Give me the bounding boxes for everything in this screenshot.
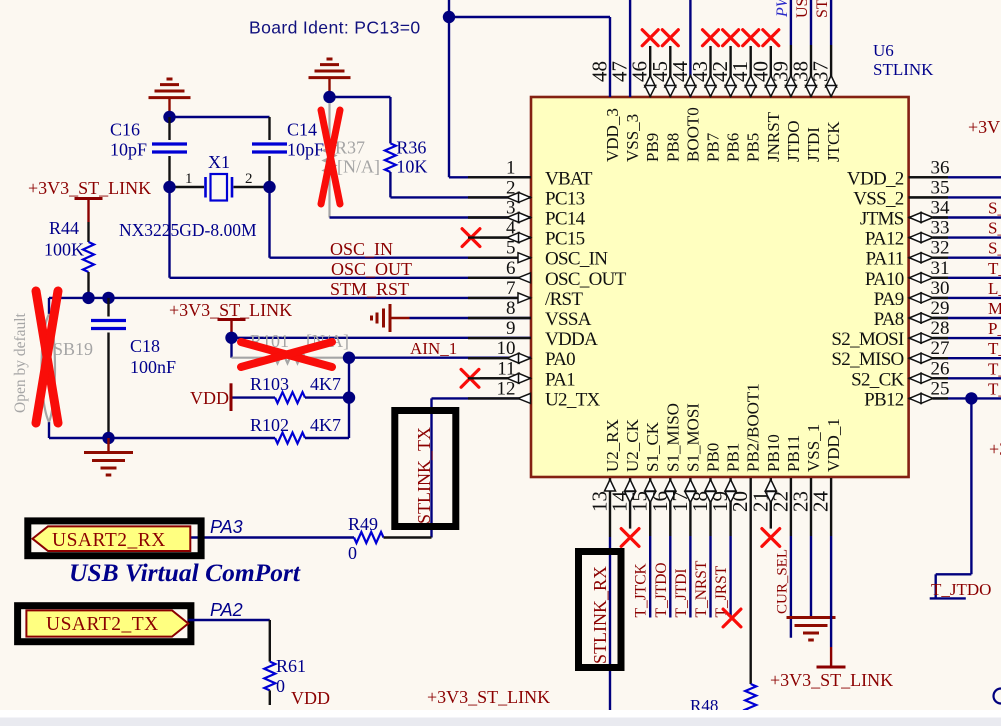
pin 25 PB12 [864,378,949,410]
svg-text:1: 1 [185,171,193,187]
annotation box STLINK RX [579,552,622,668]
svg-text:C14: C14 [287,120,317,140]
annotation box STLINK TX [395,411,456,527]
pin 28 S2_MOSI [831,318,949,350]
label STM_RST [330,279,409,299]
svg-text:S1_MOSI: S1_MOSI [683,403,702,472]
wire pin 31 [933,277,1001,279]
svg-text:VDD_3: VDD_3 [603,108,622,162]
svg-text:0: 0 [276,676,285,696]
label R103 [250,374,289,394]
svg-text:10K: 10K [396,157,427,177]
wire pin 39 JTDO to top [790,0,792,97]
label PA2 [210,600,243,620]
no-connect X pin 40 [763,30,779,46]
svg-text:4K7: 4K7 [310,415,341,435]
power +3V3 (top right, clipped) [968,117,1001,137]
pin 38 JTDI [789,61,824,162]
svg-text:PA2: PA2 [210,600,243,620]
wire pin 25 [933,397,1001,399]
svg-text:28: 28 [931,318,950,339]
label T_JTCK (rotated) [633,562,650,617]
svg-text:OSC_IN: OSC_IN [545,249,608,270]
svg-text:T_: T_ [988,339,1001,358]
wire stub pin 40 [770,46,772,97]
label R101 (gray) [250,331,289,351]
svg-text:24: 24 [809,491,833,513]
svg-text:PB12: PB12 [864,389,904,410]
resistor R44 [83,222,94,298]
wire pin 20 to R48 [750,478,752,684]
svg-text:JTDO: JTDO [784,120,803,162]
node VDDA junction [225,332,237,344]
svg-text:STLINK_RX: STLINK_RX [590,566,610,664]
svg-text:R61: R61 [276,656,306,676]
svg-text:PA0: PA0 [545,349,575,370]
pin 35 VSS_2 [853,177,949,209]
svg-text:PA12: PA12 [865,229,904,250]
svg-text:PA11: PA11 [866,249,904,270]
wire R37 to pin3 PC14 [330,216,532,218]
ground below C18 [84,438,133,475]
power +3V3 (right, clipped) [989,439,1001,459]
wire pin 38 JTDI to top [810,0,812,97]
svg-text:R36: R36 [396,138,426,158]
svg-text:PA8: PA8 [874,309,904,330]
svg-text:T_JTDI: T_JTDI [673,568,690,617]
pin 21 PB10 [748,434,783,512]
svg-text:VBAT: VBAT [545,168,593,189]
label T_NRST (rotated) [693,560,710,617]
svg-text:BOOT0: BOOT0 [683,107,702,162]
svg-text:35: 35 [931,177,950,198]
svg-text:S2_MISO: S2_MISO [831,349,903,370]
node X1 pin2 [263,181,275,193]
resistor R102 [275,433,349,444]
wire pin 44 BOOT0 to top [689,0,691,97]
solder bridge SB19 (gray, open) [42,298,56,438]
label net S... (clipped) [988,219,1001,238]
svg-text:USART2_RX: USART2_RX [52,530,166,551]
no-connect X pin 41 [743,30,759,46]
svg-text:P_: P_ [988,319,1001,338]
wire pin 29 [933,317,1001,319]
label CUR_SEL (rotated) [774,549,790,614]
svg-text:M_: M_ [988,299,1001,318]
svg-text:VSS_2: VSS_2 [853,188,904,209]
resistor R48 [745,684,756,712]
no-connect X pin 46 [642,30,658,46]
label net S... (clipped) [988,199,1001,218]
svg-text:S_: S_ [988,199,1001,218]
svg-text:S2_MOSI: S2_MOSI [831,329,904,350]
svg-text:S1_MISO: S1_MISO [663,403,682,472]
node PB12 junction [965,392,977,404]
svg-text:STLINK_TX: STLINK_TX [414,427,434,524]
svg-text:S2_CK: S2_CK [851,369,904,390]
svg-text:PA9: PA9 [874,289,904,310]
svg-text:30: 30 [931,278,950,299]
svg-text:PB11: PB11 [784,435,803,472]
wire gnd node to C14 top [170,117,270,140]
label T_JTDO [931,580,991,599]
pin 29 PA8 [874,298,950,330]
svg-text:PC15: PC15 [545,229,585,250]
value STLINK [873,60,934,79]
svg-text:R103: R103 [250,374,289,394]
port flag USART2_RX [33,526,191,551]
svg-text:8: 8 [506,298,516,319]
label STLINK_RX (rotated) [590,566,610,664]
svg-text:Open by default: Open by default [12,312,29,413]
pin 7 /RST [468,278,583,310]
label T_JRST (rotated) [713,565,730,617]
wire AIN_1 pin 10 [349,357,531,359]
svg-text:VDD_1: VDD_1 [824,418,843,472]
svg-text:U2_TX: U2_TX [545,389,601,410]
svg-text:CUR_SEL: CUR_SEL [774,549,790,614]
node C18 top [102,292,114,304]
svg-text:29: 29 [931,298,950,319]
svg-text:36: 36 [931,157,950,178]
pin 1 VBAT [468,157,593,189]
value 0 (R49) [348,543,357,563]
node X1 pin1 [163,181,175,193]
wire pin 23 VSS_1 [810,478,812,618]
svg-text:OSC_OUT: OSC_OUT [331,259,412,279]
label SB19 (gray) [53,339,93,359]
pin 33 PA12 [865,218,950,250]
svg-text:+3V3_ST_LINK: +3V3_ST_LINK [770,670,893,690]
node R103 right [343,391,355,403]
pin 32 PA11 [866,238,950,270]
pin 3 PC14 [468,198,586,230]
wire pin 27 [933,357,1001,359]
wire R36 to pin2 PC13 [390,172,531,197]
svg-text:S_: S_ [988,219,1001,238]
bottom margin band [0,710,1001,726]
wire OSC_OUT [170,187,532,278]
connector arc (bottom right, clipped) [994,689,1001,704]
wire stub pin 46 [649,46,651,97]
svg-text:USB: USB [794,0,811,18]
label AIN_1 [410,339,457,358]
svg-text:10pF: 10pF [110,140,147,160]
wire OSC_IN [270,187,532,258]
svg-text:C18: C18 [130,336,160,356]
svg-text:T_JTCK: T_JTCK [633,562,650,617]
wire U2_TX pin 12 [432,398,532,537]
wire pin 22 CUR_SEL [790,478,792,638]
title USB Virtual ComPort [69,558,301,587]
value 100K [44,240,84,260]
svg-text:37: 37 [809,61,833,82]
pin 45 PB8 [648,61,683,162]
not-fitted X over R101 [241,342,332,367]
pin 11 PA1 [468,358,575,390]
wire pin 16 [669,478,671,618]
ground VSS_1 [787,618,836,641]
label R49 [348,514,378,534]
label VDD (R61) [291,688,330,708]
capacitor C14 [252,144,287,187]
capacitor C16 [152,117,187,187]
crystal X1 [170,174,270,201]
svg-text:JTDI: JTDI [804,127,823,162]
pin 14 U2_CK [608,418,643,512]
value [N/A] (R101) [306,331,349,351]
wire pin 19 [729,478,731,618]
pin 26 S2_CK [851,358,949,390]
label net T... (clipped) [988,359,1001,378]
svg-text:R102: R102 [250,415,289,435]
svg-text:VSS_3: VSS_3 [623,114,642,162]
svg-text:11: 11 [497,358,515,379]
value 100nF [130,357,176,377]
resistor R61 [264,662,275,705]
capacitor C18 [91,298,126,438]
wire stub pin 21 [770,478,772,529]
pin 46 PB9 [628,61,663,162]
power VDD (R103) [190,383,231,411]
svg-text:7: 7 [506,278,516,299]
svg-text:5: 5 [506,238,516,259]
value 10K [396,157,427,177]
not-fitted X over R37 [321,110,340,204]
label R44 [49,218,79,238]
wire VSSA pin 8 [410,317,532,319]
no-connect X pin 11 [461,369,479,387]
pin 42 PB6 [708,61,743,162]
svg-text:STM: STM [814,0,831,18]
svg-text:PB8: PB8 [663,133,682,162]
svg-text:U2_CK: U2_CK [623,418,642,472]
svg-text:3: 3 [506,198,516,219]
svg-text:100nF: 100nF [130,357,176,377]
annotation box USART2_TX [18,606,191,642]
svg-text:S1_CK: S1_CK [643,421,662,472]
wire pin 47 VSS_3 to top [629,0,631,97]
label R61 [276,656,306,676]
pin 27 S2_MISO [831,338,949,370]
svg-text:9: 9 [506,318,516,339]
svg-text:PWR: PWR [774,0,791,18]
label R48 [690,696,718,715]
value 4K7 (R102) [310,415,341,435]
svg-text:VDD: VDD [190,388,229,408]
svg-text:[N/A]: [N/A] [337,157,380,177]
ground top (R37/C14 node) [309,59,351,92]
label PA3 [210,517,243,537]
wire stub pin 41 [750,46,752,97]
svg-text:PB9: PB9 [643,133,662,162]
svg-text:JTCK: JTCK [824,121,843,162]
svg-text:PC13: PC13 [545,188,585,209]
no-connect X pin 21 [762,529,780,547]
svg-text:PA10: PA10 [865,269,904,290]
resistor R49 [354,532,432,543]
svg-text:/RST: /RST [545,289,583,310]
annotation box USART2_RX [28,521,201,556]
svg-text:+3V3: +3V3 [968,117,1001,137]
svg-text:PB0: PB0 [704,443,723,472]
node board ident junction [443,11,455,23]
op-amp U6 STLINK IC body [531,97,909,477]
svg-text:4: 4 [506,218,516,239]
svg-text:+3V3_ST_LINK: +3V3_ST_LINK [169,300,292,320]
pin 8 VSSA [468,298,592,330]
node AIN junction [343,352,355,364]
wire VBAT / board-ident net vertical [449,0,531,177]
wire pin 24 VDD_1 [830,478,832,647]
pin 37 JTCK [809,61,844,162]
pin 16 S1_MISO [648,403,683,512]
wire VDDA pin 9 [232,337,532,339]
label net T... (clipped) [988,339,1001,358]
no-connect X pin 43 [703,30,719,46]
node C16 top [163,111,175,123]
svg-text:10: 10 [497,338,516,359]
svg-text:STLINK: STLINK [873,60,934,79]
resistor R103 [233,392,350,403]
pin 13 U2_RX [588,419,623,512]
pin 12 U2_TX [468,378,601,410]
node R37 top [323,91,335,103]
svg-text:10pF: 10pF [287,140,324,160]
svg-text:VDD: VDD [291,688,330,708]
wire pin 18 [709,478,711,618]
svg-text:+3V: +3V [989,439,1001,459]
label X1 [208,152,230,172]
wire pin 33 [933,236,1001,238]
value NX3225GD-8.00M [119,220,257,240]
svg-text:2: 2 [245,171,253,187]
value 0 (R61) [276,676,285,696]
pin 4 PC15 [468,218,585,250]
svg-text:OSC_OUT: OSC_OUT [545,269,627,290]
svg-text:R37: R37 [335,138,365,158]
label net T... (clipped) [988,379,1001,398]
label PWR... (rotated, clipped) [774,0,791,18]
label C14 [287,120,317,140]
label OSC_IN [330,239,393,259]
wire stub pin 45 [669,46,671,97]
pin 39 JTDO [768,61,803,162]
svg-text:+3V3_ST_LINK: +3V3_ST_LINK [427,687,550,707]
label net P... (clipped) [988,319,1001,338]
svg-text:PB6: PB6 [724,133,743,162]
wire pin 35 VSS_2 [909,196,1001,198]
label net T... (clipped) [988,259,1001,278]
svg-text:T_: T_ [988,359,1001,378]
resistor R101 (N/A, gray) [232,352,350,363]
wire pin 32 [933,257,1001,259]
wire pin 34 [933,216,1001,218]
svg-text:C16: C16 [110,120,140,140]
value 4K7 (R103) [310,374,341,394]
note Board Ident: PC13=0 [249,18,420,38]
svg-text:STM_RST: STM_RST [330,279,409,299]
svg-text:U2_RX: U2_RX [603,419,622,472]
label +3V3_ST_LINK (bottom center) [427,687,550,707]
label C18 [130,336,160,356]
pin 30 PA9 [874,278,950,310]
svg-text:PB5: PB5 [744,133,763,162]
pin 17 S1_MOSI [668,403,703,512]
svg-text:PB7: PB7 [704,132,723,162]
pin 48 VDD_3 [588,61,623,162]
pin 19 PB1 [708,443,743,512]
wire pin 17 [689,478,691,618]
label R37 (gray) [335,138,365,158]
pin 5 OSC_IN [468,238,608,270]
node R44 bottom [82,292,94,304]
pin 2 PC13 [468,177,585,209]
power +3V3_ST_LINK (mid) [169,300,292,338]
wire PA2 to R61 [188,620,269,662]
pin 22 PB11 [768,435,803,512]
wire down to R101 [230,338,232,358]
note Open by default (gray, rotated) [12,312,29,413]
wire STM_RST [49,297,531,299]
svg-text:100K: 100K [44,240,84,260]
svg-text:VSS_1: VSS_1 [804,424,823,472]
label net M... (clipped) [988,299,1001,318]
svg-text:12: 12 [497,378,516,399]
svg-text:26: 26 [931,358,950,379]
svg-text:VSSA: VSSA [545,309,592,330]
svg-text:6: 6 [506,258,516,279]
label T_JTDO (rotated) [653,562,670,617]
wire T_JTDO net [930,398,972,598]
pin 41 PB5 [728,61,763,162]
resistor R37 (N/A, gray) [324,103,335,218]
svg-text:27: 27 [931,338,950,359]
wire stub pin 14 [629,478,631,529]
pin 20 PB2/BOOT1 [728,383,763,512]
wire R36 top [330,97,391,143]
pin 6 OSC_OUT [468,258,627,290]
ground VSSA (sideways) [372,304,410,332]
no-connect X pin 19 bottom [723,609,741,627]
power +3V3_ST_LINK (pin 24) [770,647,893,690]
no-connect X pin 14 [621,529,639,547]
svg-text:31: 31 [931,258,950,279]
svg-text:VDDA: VDDA [545,329,598,350]
svg-text:JNRST: JNRST [764,111,783,162]
svg-text:L_: L_ [988,279,1001,298]
wire PA3 row [190,536,354,538]
label C16 [110,120,140,140]
svg-text:PC14: PC14 [545,209,586,230]
pin 18 PB0 [688,443,723,512]
svg-text:PA3: PA3 [210,517,243,537]
label STLINK_TX (rotated) [414,427,434,524]
node C18 bottom [102,432,114,444]
svg-text:USB Virtual ComPort: USB Virtual ComPort [69,558,301,587]
svg-text:R49: R49 [348,514,378,534]
pin 40 JNRST [748,61,783,162]
svg-text:32: 32 [931,238,950,259]
svg-text:4K7: 4K7 [310,374,341,394]
value [N/A] (R37) [337,157,380,177]
wire pin 30 [933,297,1001,299]
label T_JTDI (rotated) [673,568,690,617]
resistor R36 [385,143,396,172]
svg-text:SB19: SB19 [53,339,93,359]
svg-text:U6: U6 [873,41,894,60]
pin 47 VSS_3 [608,61,643,162]
